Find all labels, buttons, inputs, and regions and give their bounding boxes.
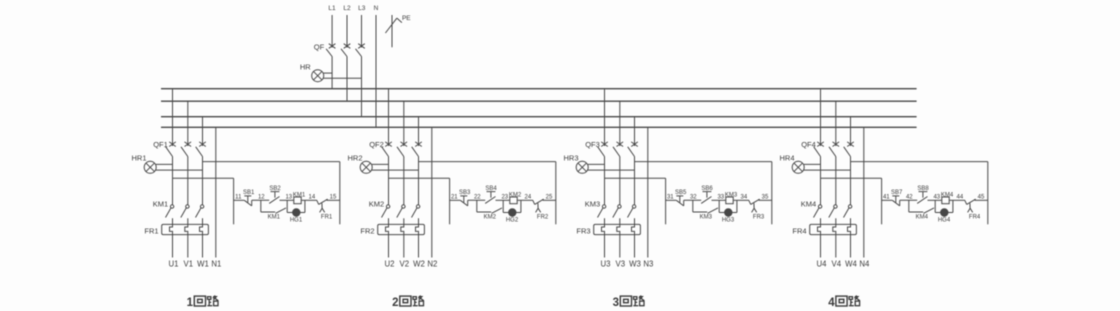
svg-text:SB8: SB8 <box>917 186 929 192</box>
svg-text:L2: L2 <box>343 5 351 12</box>
svg-text:V4: V4 <box>832 260 842 269</box>
svg-text:44: 44 <box>957 195 964 201</box>
svg-text:FR2: FR2 <box>360 227 374 236</box>
svg-text:12: 12 <box>258 195 265 201</box>
svg-text:V3: V3 <box>616 260 626 269</box>
svg-text:HR3: HR3 <box>563 153 578 162</box>
svg-text:33: 33 <box>717 195 724 201</box>
svg-text:14: 14 <box>309 195 316 201</box>
svg-text:SB5: SB5 <box>675 190 687 196</box>
svg-text:KM4: KM4 <box>916 214 929 220</box>
svg-text:L1: L1 <box>328 5 336 12</box>
svg-text:PE: PE <box>402 15 411 22</box>
svg-text:V2: V2 <box>400 260 410 269</box>
svg-text:SB3: SB3 <box>459 190 471 196</box>
svg-text:45: 45 <box>978 195 985 201</box>
svg-text:W2: W2 <box>413 260 425 269</box>
svg-text:QF: QF <box>314 42 325 51</box>
svg-text:KM4: KM4 <box>801 199 816 208</box>
svg-text:HG1: HG1 <box>290 217 303 223</box>
svg-text:HG2: HG2 <box>506 217 519 223</box>
svg-text:QF1: QF1 <box>153 140 168 149</box>
svg-text:35: 35 <box>762 195 769 201</box>
svg-text:3: 3 <box>613 297 619 309</box>
svg-text:2: 2 <box>392 297 398 309</box>
svg-text:FR4: FR4 <box>792 227 806 236</box>
svg-text:HG3: HG3 <box>722 217 735 223</box>
svg-text:FR3: FR3 <box>753 214 765 220</box>
svg-text:32: 32 <box>690 195 697 201</box>
svg-text:34: 34 <box>741 195 748 201</box>
svg-text:N1: N1 <box>211 260 221 269</box>
svg-text:N: N <box>374 5 379 12</box>
svg-text:21: 21 <box>451 195 458 201</box>
svg-text:FR3: FR3 <box>576 227 590 236</box>
svg-text:FR4: FR4 <box>969 214 981 220</box>
svg-text:W4: W4 <box>845 260 857 269</box>
svg-text:13: 13 <box>285 195 292 201</box>
svg-text:KM2: KM2 <box>369 199 384 208</box>
svg-text:FR2: FR2 <box>537 214 549 220</box>
svg-text:KM2: KM2 <box>509 193 522 199</box>
svg-text:15: 15 <box>330 195 337 201</box>
svg-text:N3: N3 <box>643 260 653 269</box>
svg-text:QF2: QF2 <box>369 140 384 149</box>
svg-text:HR1: HR1 <box>131 153 146 162</box>
svg-text:KM1: KM1 <box>268 214 281 220</box>
svg-text:W3: W3 <box>629 260 641 269</box>
svg-text:SB6: SB6 <box>701 186 713 192</box>
svg-text:V1: V1 <box>184 260 194 269</box>
svg-text:22: 22 <box>474 195 481 201</box>
svg-text:KM3: KM3 <box>585 199 600 208</box>
svg-text:U4: U4 <box>817 260 828 269</box>
svg-text:U1: U1 <box>169 260 179 269</box>
svg-text:1: 1 <box>187 297 194 309</box>
svg-text:24: 24 <box>525 195 532 201</box>
svg-text:41: 41 <box>883 195 890 201</box>
svg-text:HR4: HR4 <box>779 153 794 162</box>
svg-text:QF4: QF4 <box>801 140 816 149</box>
svg-text:N4: N4 <box>859 260 870 269</box>
svg-text:L3: L3 <box>358 5 366 12</box>
svg-text:11: 11 <box>235 195 242 201</box>
svg-text:31: 31 <box>667 195 674 201</box>
svg-text:QF3: QF3 <box>585 140 600 149</box>
svg-text:KM1: KM1 <box>293 193 306 199</box>
svg-text:23: 23 <box>501 195 508 201</box>
svg-text:SB7: SB7 <box>891 190 903 196</box>
svg-text:KM3: KM3 <box>725 193 738 199</box>
svg-text:HR2: HR2 <box>347 153 362 162</box>
svg-text:FR1: FR1 <box>321 214 333 220</box>
svg-text:KM3: KM3 <box>700 214 713 220</box>
svg-text:W1: W1 <box>197 260 209 269</box>
svg-text:N2: N2 <box>427 260 437 269</box>
svg-text:KM2: KM2 <box>484 214 497 220</box>
svg-text:25: 25 <box>546 195 553 201</box>
svg-text:HR: HR <box>300 62 311 71</box>
svg-text:KM1: KM1 <box>153 199 168 208</box>
svg-text:SB2: SB2 <box>269 186 281 192</box>
svg-text:SB4: SB4 <box>485 186 497 192</box>
svg-text:FR1: FR1 <box>144 227 158 236</box>
svg-text:4: 4 <box>828 297 835 309</box>
svg-text:KM4: KM4 <box>941 193 954 199</box>
svg-text:HG4: HG4 <box>938 217 951 223</box>
svg-text:U3: U3 <box>601 260 611 269</box>
svg-text:42: 42 <box>906 195 913 201</box>
svg-text:SB1: SB1 <box>243 190 255 196</box>
svg-text:U2: U2 <box>385 260 395 269</box>
svg-text:43: 43 <box>933 195 940 201</box>
